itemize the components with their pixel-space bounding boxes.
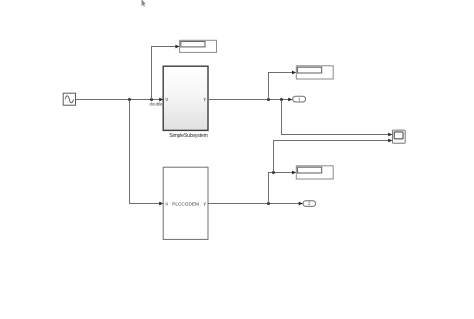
port label y — [204, 203, 206, 206]
junction node to display2 branch — [267, 98, 270, 101]
wire branch up to display1 — [152, 45, 180, 100]
port label u — [166, 203, 168, 206]
display block 1 (input monitor) — [180, 40, 217, 52]
junction node to scope input 2 branch — [272, 171, 275, 174]
display block 3 (PLC output monitor) — [296, 166, 333, 179]
label SimpleSubsystem — [169, 133, 208, 139]
port label y — [204, 98, 206, 101]
wire branch up to scope input 2 — [274, 139, 393, 173]
wire sine to subsystem input — [76, 98, 164, 102]
wire branch down to scope input 1 — [282, 100, 393, 137]
sine wave source — [63, 93, 75, 105]
mouse cursor — [142, 0, 146, 7]
subsystem SimpleSubsystem — [163, 66, 208, 130]
junction node to scope branch — [280, 98, 283, 101]
scope — [393, 130, 406, 143]
signal type label double — [150, 101, 164, 106]
out port 2 — [303, 201, 316, 207]
svg-text:double: double — [150, 101, 164, 106]
wire subsystem output to out port 1 — [208, 98, 292, 102]
wire PLCCODEM output to out port 2 — [208, 202, 303, 206]
svg-text:SimpleSubsystem: SimpleSubsystem — [169, 133, 208, 139]
port label u — [166, 98, 168, 101]
svg-text:PLCCODEM: PLCCODEM — [172, 201, 199, 206]
wire branch up to display2 — [269, 71, 297, 100]
junction node to PLC branch — [128, 98, 131, 101]
junction node to display1 branch — [150, 98, 153, 101]
display block 2 (subsystem output monitor) — [296, 66, 333, 79]
wire branch down to PLCCODEM input — [130, 100, 164, 206]
out port 1 — [293, 96, 306, 102]
block PLCCODEM — [163, 167, 208, 239]
wire branch up to display3 — [269, 171, 297, 204]
junction node to display3 branch — [267, 202, 270, 205]
